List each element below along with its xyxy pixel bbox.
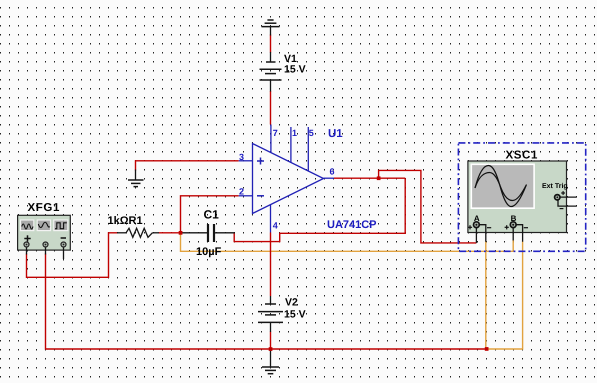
- svg-text:A: A: [474, 214, 480, 223]
- svg-text:U1: U1: [328, 128, 343, 140]
- svg-text:XFG1: XFG1: [28, 202, 60, 214]
- svg-text:15 V: 15 V: [284, 309, 306, 321]
- svg-text:4: 4: [273, 221, 278, 231]
- svg-text:6: 6: [330, 167, 335, 177]
- svg-text:5: 5: [309, 128, 314, 138]
- svg-text:3: 3: [239, 152, 244, 162]
- svg-text:V2: V2: [285, 297, 298, 309]
- svg-text:1kΩR1: 1kΩR1: [108, 215, 143, 227]
- svg-text:1: 1: [292, 128, 297, 138]
- svg-text:B: B: [511, 214, 517, 223]
- svg-text:UA741CP: UA741CP: [327, 219, 377, 231]
- svg-text:10µF: 10µF: [196, 246, 222, 258]
- svg-text:7: 7: [273, 128, 278, 138]
- svg-text:XSC1: XSC1: [506, 150, 538, 162]
- svg-text:C1: C1: [204, 208, 220, 222]
- svg-text:2: 2: [239, 187, 244, 197]
- svg-text:15 V: 15 V: [284, 63, 306, 75]
- svg-text:Ext Trig: Ext Trig: [542, 182, 568, 190]
